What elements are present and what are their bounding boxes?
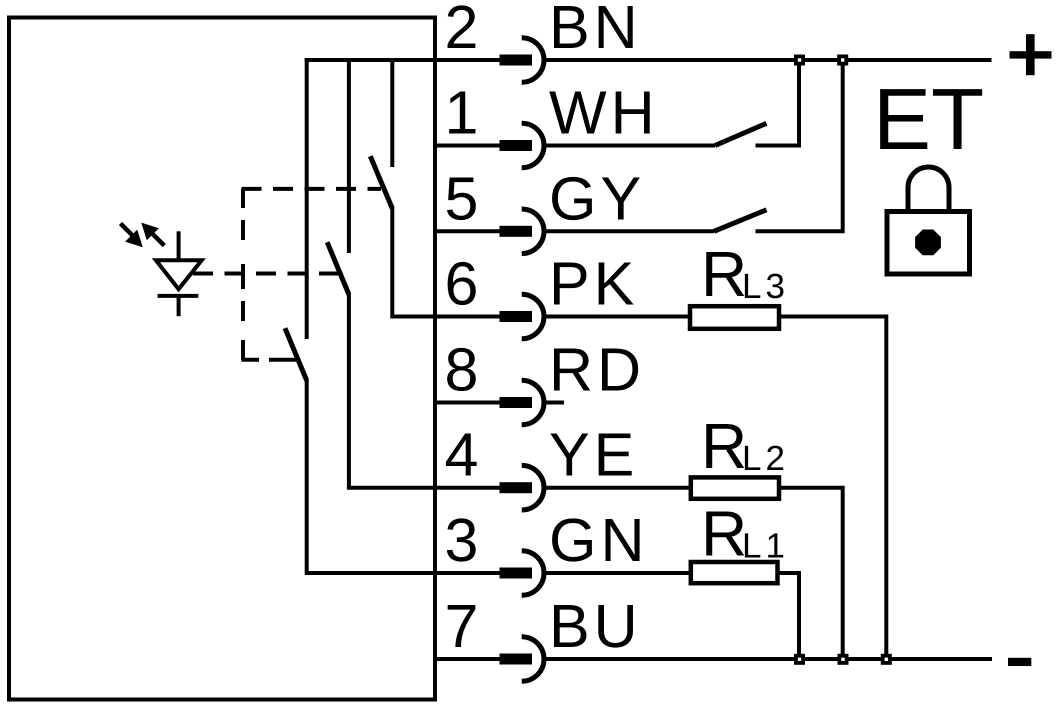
pin 1 lead wire [433, 144, 500, 148]
svg-text:2: 2 [445, 0, 479, 61]
pin 4 socket arc [522, 465, 544, 510]
dashed actuator link vertical [241, 189, 245, 360]
pin 7 lead wire [433, 657, 500, 661]
LED cathode bar [158, 294, 199, 298]
switch S3 (NO contact, to pin 3) [285, 328, 307, 380]
pin 1 plug contact [500, 140, 533, 151]
internal supply bus wire (pin 2 feed) [305, 58, 435, 62]
plus terminal symbol [1010, 34, 1052, 75]
wire WH switch to + rail [756, 60, 800, 146]
minus terminal symbol [1008, 658, 1031, 666]
pin 2 socket arc [522, 38, 544, 83]
junction node J4 (-/RL2) [838, 654, 849, 665]
wire RL3 to - rail [779, 317, 886, 660]
svg-text:4: 4 [445, 421, 479, 489]
LED D1 triangle [156, 260, 202, 289]
resistor RL1 [691, 562, 778, 583]
pin 3 socket arc [522, 551, 544, 596]
pin 6 plug contact [500, 311, 533, 322]
svg-text:BU: BU [549, 592, 642, 660]
svg-text:1: 1 [445, 79, 479, 147]
LED arrow 1 (incoming light) [125, 230, 143, 248]
svg-text:BN: BN [549, 0, 642, 61]
svg-text:ET: ET [873, 71, 984, 168]
svg-text:WH: WH [549, 79, 659, 147]
wire YE to resistor RL2 [546, 486, 691, 490]
wire: S3 output to pin 3 [307, 380, 435, 574]
pin 5 lead wire [433, 229, 500, 233]
wire: bus down to switch S1 [390, 58, 394, 167]
dashed actuator link to S3 [242, 358, 299, 362]
svg-text:R: R [701, 498, 747, 570]
svg-text:GY: GY [549, 164, 645, 232]
pin 6 lead wire [433, 315, 500, 319]
wire: S1 output to pin 6 [392, 208, 435, 317]
junction node J5 (-/RL3) [881, 654, 892, 665]
wire: bus down to switch S3 [305, 58, 309, 339]
pin 1 socket arc [522, 123, 544, 168]
padlock shackle [908, 167, 949, 210]
resistor RL3 [690, 306, 779, 329]
pin 8 stub wire (RD) [546, 401, 564, 405]
wire PK to resistor RL3 [546, 315, 690, 319]
pin 8 plug contact [500, 397, 533, 408]
switch on GY line [714, 210, 767, 232]
wire RL2 to - rail [779, 488, 843, 659]
svg-text:R: R [701, 238, 747, 310]
svg-text:R: R [701, 410, 747, 482]
pin 4 lead wire [433, 486, 500, 490]
pin 3 plug contact [500, 568, 533, 579]
svg-text:8: 8 [445, 336, 479, 404]
pin 7 socket arc [522, 637, 544, 682]
pin 8 socket arc [522, 380, 544, 425]
svg-text:YE: YE [549, 421, 638, 489]
wire GY after socket [546, 229, 714, 233]
- supply rail wire (BU) [546, 657, 992, 661]
wire RL1 to - rail [778, 573, 800, 659]
dashed actuator link to S1 [242, 187, 382, 191]
wire GY switch to + rail [756, 60, 843, 231]
wire: S2 output to pin 4 [349, 294, 435, 488]
LED cathode wire [177, 294, 181, 316]
junction node J3 (-/RL1) [794, 654, 805, 665]
svg-text:6: 6 [445, 250, 479, 318]
padlock keyhole octagon [915, 230, 941, 256]
svg-text:L2: L2 [742, 439, 789, 478]
pin 8 lead wire [433, 401, 500, 405]
wire: bus down to switch S2 [347, 58, 351, 253]
svg-text:7: 7 [445, 592, 479, 660]
LED arrow 2 (outgoing light) [141, 223, 159, 241]
pin 5 socket arc [522, 209, 544, 254]
svg-text:5: 5 [445, 164, 479, 232]
switch S2 (NO contact, to pin 4) [327, 242, 349, 294]
sensor housing outline [9, 18, 435, 700]
junction node J1 (+/WH) [794, 55, 805, 66]
pin 6 socket arc [522, 294, 544, 339]
pin 5 plug contact [500, 226, 533, 237]
padlock body [887, 212, 970, 275]
pin 2 plug contact [500, 55, 533, 66]
svg-text:L3: L3 [742, 267, 789, 306]
svg-text:GN: GN [549, 506, 649, 574]
junction node J2 (+/GY) [837, 55, 848, 66]
pin 3 lead wire [433, 571, 500, 575]
pin 4 plug contact [500, 482, 533, 493]
pin 2 lead wire [433, 58, 500, 62]
switch S1 (NO contact, to pin 6) [370, 156, 392, 208]
wire GN to resistor RL1 [546, 571, 691, 575]
switch on WH line [715, 123, 767, 145]
svg-text:RD: RD [549, 336, 645, 404]
pin 7 plug contact [500, 654, 533, 665]
resistor RL2 [691, 477, 779, 498]
LED anode wire [177, 231, 181, 262]
dashed actuator link LED to S2 [193, 272, 338, 276]
wire WH after socket [546, 144, 715, 148]
svg-text:3: 3 [445, 506, 479, 574]
svg-text:PK: PK [549, 250, 638, 318]
+ supply rail wire (BN) [546, 58, 991, 62]
svg-text:L1: L1 [742, 527, 789, 566]
